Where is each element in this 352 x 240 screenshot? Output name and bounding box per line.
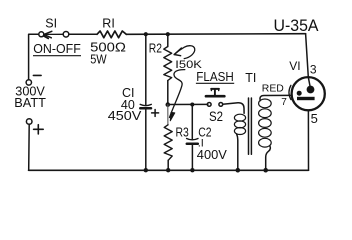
C1 polarity plus	[152, 110, 159, 117]
svg-text:VI: VI	[289, 59, 300, 73]
transformer T1 core	[249, 98, 252, 154]
battery plus sign	[34, 125, 44, 134]
wire C2 lower lead	[191, 144, 193, 170]
svg-text:S2: S2	[209, 109, 223, 124]
wire C1 branch upper	[145, 34, 147, 104]
switch S1 right contact	[63, 32, 69, 38]
node C1 top	[144, 32, 148, 36]
svg-text:R3: R3	[176, 126, 189, 140]
pushbutton S2	[206, 89, 224, 106]
switch S1 left contact	[39, 32, 44, 37]
svg-text:5: 5	[311, 111, 318, 126]
wire R3 bottom lead	[167, 160, 169, 170]
resistor R2	[164, 47, 172, 81]
arrow R2 to R3 link	[170, 70, 185, 121]
wire T1 secondary top to V1 pin 7	[260, 95, 290, 100]
capacitor C2	[187, 139, 198, 144]
node C2 bottom	[190, 168, 194, 172]
underline FLASH	[196, 82, 234, 84]
svg-text:7: 7	[281, 97, 287, 108]
wire top bus corner down to V1 pin 3	[306, 34, 309, 77]
svg-text:SI: SI	[45, 16, 57, 30]
svg-text:450V: 450V	[108, 109, 142, 123]
svg-text:BATT: BATT	[14, 96, 46, 110]
svg-text:ON-OFF: ON-OFF	[33, 41, 81, 56]
svg-text:TI: TI	[245, 71, 256, 85]
svg-text:U-35A: U-35A	[274, 17, 319, 35]
transformer T1 primary winding	[234, 114, 245, 134]
wire bottom bus	[29, 169, 309, 171]
wire R2 bottom lead	[167, 81, 169, 105]
node R2/R3/S2 junction	[166, 102, 171, 107]
battery plus terminal	[26, 119, 32, 125]
transformer T1 secondary winding	[259, 99, 272, 147]
battery minus terminal	[26, 80, 31, 85]
node C1 bottom	[144, 168, 148, 172]
svg-text:5W: 5W	[90, 53, 107, 67]
wire R1 to top-right corner	[126, 33, 305, 36]
wire R3 top lead	[167, 105, 169, 125]
battery minus sign	[33, 74, 41, 76]
wire T1 secondary bottom to bus	[266, 146, 271, 170]
V1 anode dot	[307, 86, 315, 94]
arrow R2 wiper curl	[174, 46, 195, 59]
resistor R1	[97, 31, 126, 38]
wire battery plus to bottom bus	[28, 124, 31, 170]
svg-text:RI: RI	[102, 16, 115, 30]
node C2 top	[190, 103, 194, 107]
wire C2 upper lead	[191, 105, 193, 139]
node R2 top	[166, 32, 170, 36]
underline ON-OFF	[33, 55, 81, 57]
switch S1 arrow blade	[44, 31, 64, 38]
wire R2 top lead	[167, 34, 169, 46]
node T1 secondary bottom	[263, 168, 268, 173]
svg-text:RED: RED	[262, 82, 284, 94]
node T1 primary bottom	[236, 168, 241, 173]
svg-text:R2: R2	[149, 41, 162, 55]
wire S1 to R1	[69, 33, 97, 35]
node R3 bottom	[166, 168, 170, 172]
wire V1 pin 5 to bottom bus	[307, 110, 309, 170]
svg-text:3: 3	[310, 63, 317, 77]
wire T1 primary to bottom bus	[237, 134, 238, 170]
wire S2 to T1 primary	[223, 103, 244, 114]
V1 internal anode lead	[308, 77, 310, 86]
lamp V1 envelope	[292, 77, 325, 110]
svg-text:FLASH: FLASH	[196, 70, 234, 84]
wire junction to S2	[168, 103, 208, 105]
capacitor C1	[140, 104, 151, 108]
V1 cathode bar	[297, 97, 315, 100]
svg-text:400V: 400V	[197, 147, 227, 162]
resistor R3	[164, 125, 172, 161]
wire C1 branch lower	[145, 109, 147, 171]
wire top-left corner to switch S1	[29, 34, 39, 79]
V1 trigger dot	[297, 91, 302, 96]
V1 pin 7 arc	[289, 85, 291, 99]
